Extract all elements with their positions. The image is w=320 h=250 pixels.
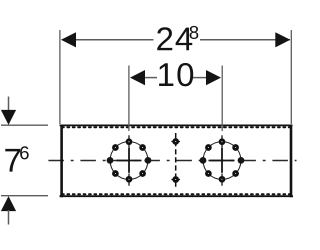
left flange hole axis ticks — [128, 135, 130, 147]
right flange bolt circle — [203, 142, 241, 180]
left flange east lug — [145, 157, 152, 164]
dimension 7.6 extension line bottom — [1, 195, 48, 197]
body top edge line — [60, 124, 293, 126]
right flange crosshair — [210, 160, 235, 162]
body left edge — [60, 125, 63, 198]
right flange west lug — [200, 157, 207, 164]
dimension 10 extension line right — [221, 66, 223, 132]
right flange east lug — [238, 157, 245, 164]
body bottom edge line — [60, 195, 294, 197]
left flange west lug — [107, 157, 114, 164]
left flange bolt holes (rings) — [113, 140, 144, 182]
body top edge rib teeth — [62, 126, 290, 128]
dimension 10 left arrowhead — [130, 70, 145, 85]
dimension 7.6 lower arrowhead — [1, 196, 16, 211]
left flange crosshair — [117, 160, 142, 162]
dimension 10 line left segment — [144, 77, 157, 79]
dimension 7.6 lower stem — [8, 210, 10, 225]
dimension 7.6 label — [5, 149, 20, 172]
dimension 24.8 extension line right — [290, 30, 292, 124]
dimension 24.8 label — [157, 27, 192, 50]
middle hole pair dashed axis — [175, 133, 177, 189]
body bottom edge rib teeth — [62, 193, 290, 195]
dimension 24.8 right arrowhead — [275, 32, 290, 47]
dimension 10 label — [159, 63, 193, 86]
dimension 24.8 line left segment — [62, 39, 154, 41]
middle top hole — [174, 140, 178, 144]
dimension 10 line right segment — [191, 77, 207, 79]
right flange hole axis ticks — [221, 135, 223, 147]
dimension 24.8 line right segment — [200, 39, 290, 41]
dimension 7.6 upper stem — [8, 97, 10, 112]
dimension 7.6 extension line top — [1, 124, 48, 126]
dimension 7.6 upper arrowhead — [1, 110, 16, 125]
left flange bolt circle — [110, 142, 148, 180]
middle top hole tick — [171, 141, 180, 143]
dimension 10 right arrowhead — [206, 70, 221, 85]
body right edge — [290, 125, 293, 198]
dimension 24.8 extension line left — [59, 30, 61, 124]
middle bottom hole tick — [171, 179, 180, 181]
middle bottom hole — [174, 178, 178, 182]
right flange bolt holes (rings) — [206, 140, 237, 182]
dimension 24.8 left arrowhead — [61, 32, 76, 47]
horizontal dash-dot centerline of body — [48, 160, 296, 162]
dimension 10 extension line left — [128, 66, 130, 132]
